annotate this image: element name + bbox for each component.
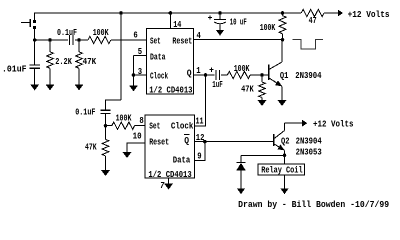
node 47K junction (77, 38, 81, 42)
pin label 7 (160, 180, 165, 191)
label +12 Volts (top) (348, 9, 390, 20)
wire pin 3 Clock (134, 74, 147, 76)
label 1/2 CD4013 (U1) (149, 85, 193, 96)
op-amp U1 1/2 CD4013 (upper) box (147, 29, 194, 95)
wire node to 100K lower (106, 125, 112, 127)
pulse waveform annotation (293, 40, 324, 49)
wire 2.2K to ground (49, 68, 51, 84)
svg-text:2N3904: 2N3904 (295, 70, 322, 81)
svg-text:2.2K: 2.2K (55, 56, 72, 67)
node 10uF rail tap (218, 11, 222, 15)
wire 47K to ground (261, 98, 263, 101)
pin label 10 (133, 130, 142, 141)
wire pin 10 Reset (127, 143, 145, 152)
label Set (U2) (149, 121, 160, 132)
label 0.1uF (lower) (75, 107, 95, 118)
wire 100K to pin 8 (135, 125, 145, 127)
label 2N3904 (Q2) (296, 135, 322, 146)
wire relay coil to ground (284, 175, 286, 189)
svg-text:100K: 100K (234, 63, 250, 74)
wire pin 7 to ground (168, 178, 170, 184)
svg-text:Clock: Clock (150, 70, 168, 81)
svg-text:10: 10 (133, 130, 142, 141)
wire node to diode (240, 155, 242, 162)
label 47 (309, 15, 317, 26)
label 100K (top left) (93, 27, 109, 38)
wire Q to pin 11 Clock (194, 75, 205, 126)
wire +12V top rail (35, 12, 302, 14)
wire corner left (106, 99, 122, 101)
svg-text:Data: Data (150, 51, 166, 62)
pin label 3 (138, 66, 143, 77)
wire 47K lower to ground (105, 156, 107, 170)
wire node to 2.2K (49, 40, 51, 52)
resistor 47 (top rail) (301, 9, 324, 16)
label Q (U1) (187, 68, 192, 79)
svg-text:7: 7 (160, 180, 165, 191)
wire 1uF to 100K (221, 74, 227, 76)
wire pin3 to ground (133, 75, 135, 86)
transistor Q2 2N3904/2N3053 (274, 123, 285, 150)
wire node into relay coil (284, 155, 286, 164)
node pin3 junction (132, 73, 136, 77)
+12 Volts arrow (Q2) (302, 120, 307, 127)
svg-text:1: 1 (196, 65, 201, 76)
wire 100K to collector node (282, 34, 284, 40)
ground (47K lower) (101, 170, 110, 176)
wire rail drop to switch (34, 13, 36, 21)
svg-text:0.1uF: 0.1uF (57, 27, 77, 38)
label 47K (lower left) (85, 142, 97, 153)
pin label 12 (196, 132, 205, 143)
wire cap to resistor (75, 39, 88, 41)
svg-text:Q: Q (184, 135, 189, 146)
node set-RC junction (104, 124, 108, 128)
node rail tap (119, 11, 123, 15)
wire node to .01uF (34, 40, 36, 65)
resistor 47K (left) (76, 52, 83, 69)
svg-text:+12 Volts: +12 Volts (348, 9, 390, 20)
svg-text:2N3904: 2N3904 (296, 135, 322, 146)
op-amp U2 1/2 CD4013 (lower) box (145, 115, 194, 178)
svg-text:14: 14 (173, 19, 182, 30)
wire node to 47K (78, 40, 80, 52)
label 47K (Q1 base) (241, 84, 254, 95)
pin label 11 (196, 116, 204, 127)
wire to +12V arrow (324, 12, 338, 14)
wire rail down crossing (120, 13, 122, 100)
wire Q2 collector to +12V (285, 122, 303, 124)
ground (pin 10) (123, 152, 132, 158)
svg-text:3: 3 (138, 66, 143, 77)
wire down to 0.1uF (105, 100, 107, 111)
wire pin 9 Data tie (194, 142, 205, 161)
pin label 1 (196, 65, 201, 76)
pin label 4 (197, 30, 202, 41)
wire Q2 emitter down (284, 150, 286, 155)
svg-text:Drawn by - Bill Bowden -10/7/9: Drawn by - Bill Bowden -10/7/99 (238, 199, 389, 210)
pin label 8 (139, 115, 144, 126)
capacitor 10uF (214, 19, 226, 23)
svg-text:Q2: Q2 (281, 135, 290, 146)
pin label 5 (138, 46, 143, 57)
svg-text:1/2 CD4013: 1/2 CD4013 (148, 169, 192, 180)
wire 10uF to ground (219, 24, 221, 30)
resistor 2.2K (47, 52, 54, 69)
svg-text:100K: 100K (93, 27, 109, 38)
pushbutton S1 (21, 19, 36, 29)
svg-text:Data: Data (173, 154, 191, 165)
svg-text:Set: Set (149, 121, 160, 132)
capacitor 0.1uF (series) (70, 35, 73, 45)
wire pin 1 Q output (194, 74, 206, 76)
label +12 Volts (Q2) (313, 119, 354, 130)
wire base node to 47K (261, 75, 263, 82)
ground (pin 7) (164, 184, 173, 190)
pin label 14 (173, 19, 182, 30)
node Q output junction (204, 73, 208, 77)
wire Q1 emitter to ground (281, 86, 283, 100)
wire base node to Q1 (262, 74, 268, 76)
pin label 9 (197, 150, 201, 161)
label .01uF (2, 63, 27, 74)
svg-text:10 uF: 10 uF (230, 16, 247, 27)
resistor 100K (base Q1) (227, 71, 250, 78)
label Clock (U2) (171, 121, 194, 132)
resistor 47K (Q1 base) (259, 82, 266, 98)
ground (47K left) (75, 85, 84, 91)
label Reset (U1) (172, 35, 192, 46)
label 2.2K (55, 56, 72, 67)
label 47K (left) (83, 56, 97, 67)
title Drawn by Bill Bowden (238, 199, 389, 210)
label Clock (U1) (150, 70, 168, 81)
wire .01uF to ground (34, 68, 36, 84)
svg-text:8: 8 (139, 115, 144, 126)
ground (10uF) (216, 30, 225, 36)
svg-text:Set: Set (150, 35, 161, 46)
svg-text:0.1uF: 0.1uF (75, 107, 95, 118)
label Q1 (280, 70, 289, 81)
svg-text:47: 47 (309, 15, 317, 26)
node relay junction (283, 154, 287, 158)
wire rail to 10uF (219, 13, 221, 19)
wire main RC node line (35, 39, 68, 41)
node Q1 base junction (260, 73, 264, 77)
ground (.01uF) (30, 85, 39, 91)
label 100K (base Q1) (234, 63, 250, 74)
svg-text:Reset: Reset (172, 35, 192, 46)
plus sign (1uF) (210, 68, 214, 72)
label 10 uF (230, 16, 247, 27)
node pin 14 rail tap (169, 11, 173, 15)
node 100K rail tap (281, 11, 285, 15)
svg-text:Q: Q (187, 68, 192, 79)
wire rail to 100K pullup (282, 13, 284, 16)
resistor 100K (lower) (112, 122, 135, 129)
svg-text:Q1: Q1 (280, 70, 289, 81)
label 2N3904 (Q1) (295, 70, 322, 81)
svg-text:1uF: 1uF (212, 79, 223, 90)
node collector junction (281, 38, 285, 42)
svg-text:6: 6 (133, 29, 137, 40)
label 100K (pullup) (260, 22, 276, 33)
wire 47K to ground (78, 68, 80, 84)
capacitor 0.1uF (lower) (100, 110, 110, 113)
svg-text:+12 Volts: +12 Volts (313, 119, 354, 130)
svg-text:9: 9 (197, 150, 201, 161)
label 100K (lower) (116, 113, 132, 124)
label Data (U1) (150, 51, 166, 62)
label Reset (U2) (149, 136, 169, 147)
svg-text:2N3053: 2N3053 (296, 146, 322, 157)
label 2N3053 (Q2) (296, 146, 322, 157)
svg-text:5: 5 (138, 46, 143, 57)
relay coil box (258, 164, 305, 175)
wire relay node left (241, 154, 285, 156)
wire Q to 1uF (206, 74, 215, 76)
+12 Volts arrow (top) (338, 10, 343, 17)
resistor 100K (pullup) (279, 16, 286, 34)
ground (2.2K) (46, 85, 55, 91)
wire pin 14 (169, 13, 171, 29)
node S1 junction (33, 38, 37, 42)
wire pin 4 Reset (194, 39, 283, 41)
resistor 47K (lower left) (102, 139, 109, 156)
plus sign (10uF) (208, 16, 212, 20)
svg-text:Relay Coil: Relay Coil (261, 164, 303, 175)
svg-text:1/2 CD4013: 1/2 CD4013 (149, 85, 193, 96)
wire switch to RC node (34, 29, 36, 41)
wire 100K to base node (250, 74, 262, 76)
ground (diode) (237, 188, 246, 194)
svg-text:11: 11 (196, 116, 204, 127)
capacitor 1uF (216, 70, 219, 80)
svg-text:47K: 47K (85, 142, 97, 153)
svg-text:.01uF: .01uF (2, 63, 27, 74)
wire pin 12 Q-bar (194, 141, 273, 143)
diode D1 (236, 162, 245, 170)
wire resistor to pin 6 (111, 39, 147, 41)
label Set (U1) (150, 35, 161, 46)
svg-text:47K: 47K (83, 56, 97, 67)
pin label 6 (133, 29, 137, 40)
svg-text:Reset: Reset (149, 136, 169, 147)
resistor 100K (series, top left) (88, 36, 111, 43)
label Q2 (281, 135, 290, 146)
svg-text:100K: 100K (116, 113, 132, 124)
ground (Q1 emitter) (278, 100, 287, 106)
wire node to 47K lower (105, 126, 107, 140)
ground (47K Q1) (258, 100, 267, 106)
label Q-bar (U2) (184, 134, 190, 146)
label 1uF (212, 79, 223, 90)
wire diode to ground (240, 170, 242, 188)
label Relay Coil (261, 164, 303, 175)
label 0.1uF (top left) (57, 27, 77, 38)
svg-text:Clock: Clock (171, 121, 194, 132)
svg-text:4: 4 (197, 30, 202, 41)
svg-text:47K: 47K (241, 84, 254, 95)
label Data (U2) (173, 154, 191, 165)
transistor Q1 2N3904 (268, 40, 282, 87)
node pin 9 junction (203, 140, 207, 144)
wire pin5 to pin3 (133, 55, 135, 75)
svg-text:100K: 100K (260, 22, 276, 33)
wire pin 5 Data (134, 54, 147, 56)
ground (pins 3,5) (129, 86, 138, 92)
ground (relay coil) (280, 188, 289, 194)
node 2.2K junction (48, 38, 52, 42)
wire 0.1uF to node (105, 113, 107, 125)
capacitor .01uF (30, 65, 40, 68)
label 1/2 CD4013 (U2) (148, 169, 192, 180)
